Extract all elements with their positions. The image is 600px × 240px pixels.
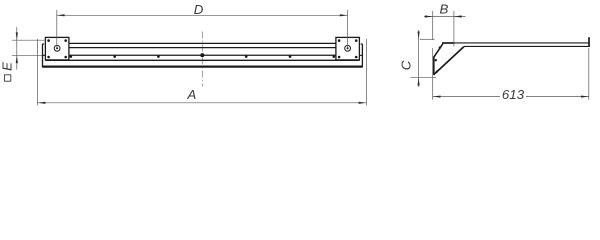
dimension C: extension and dimension lines (411, 30, 437, 87)
svg-text:C: C (398, 60, 413, 70)
arm tube bottom edge (464, 45, 590, 47)
dimension 613: extension and dimension lines (433, 48, 589, 100)
dimension C: top arrowhead (418, 32, 420, 40)
bracket hole upper (439, 46, 441, 48)
wall bracket plate: left vertical edge (433, 56, 435, 74)
luminaire housing flange line (45, 59, 359, 61)
svg-text:613: 613 (502, 87, 525, 102)
left tube end cap (43, 41, 47, 56)
center rivet dot on centerline (200, 53, 204, 57)
dimension D: right arrowhead (340, 14, 348, 16)
dimension C: bottom arrowhead (418, 78, 420, 86)
bracket hole middle (435, 59, 437, 61)
dimension D: extension and dimension lines (57, 10, 348, 48)
dimension D: left arrowhead (57, 14, 65, 16)
dimension E: square-section symbol (4, 75, 10, 81)
svg-text:D: D (194, 2, 204, 17)
svg-text:A: A (186, 87, 196, 102)
dimension E: extension and dimension lines (12, 27, 46, 70)
dimension E: top arrowhead (16, 32, 18, 40)
wall bracket plate: upper-left chamfer edge (434, 44, 443, 57)
dimension E: bottom arrowhead (16, 55, 18, 63)
dimension 613: right arrowhead (581, 96, 589, 98)
dimension 613: left arrowhead (433, 96, 441, 98)
svg-text:B: B (439, 1, 448, 16)
right mounting plate with screw holes and center hole (336, 37, 360, 60)
crossbar tube top edge (69, 42, 336, 44)
luminaire housing bottom edge (thick) (42, 65, 362, 67)
left mounting plate with screw holes and center hole (45, 37, 69, 60)
dimension B: extension and dimension lines (424, 11, 466, 47)
wall bracket plate: bottom diagonal edge (434, 47, 464, 75)
arm tube top edge (455, 42, 589, 44)
rivet dot 4 (245, 55, 248, 58)
luminaire housing top edge (69, 54, 336, 56)
crossbar tube bottom edge (69, 47, 336, 49)
right tube end cap (358, 41, 362, 56)
rivet dot 6 (333, 55, 336, 58)
dimension A: left arrowhead (38, 102, 46, 104)
dimension A: extension and dimension lines (38, 39, 367, 105)
vertical centerline (dash-dot) (201, 32, 203, 87)
bracket hole lower (436, 70, 438, 72)
dimension B: left arrowhead (425, 15, 433, 17)
rivet dot 3 (157, 55, 160, 58)
wall bracket plate: top edge (442, 42, 455, 44)
dimension A: right arrowhead (359, 102, 367, 104)
svg-text:E: E (0, 62, 14, 71)
luminaire housing right end edge (361, 44, 363, 67)
rivet dot 1 (70, 55, 73, 58)
rivet dot 2 (113, 55, 116, 58)
luminaire housing left end edge (42, 44, 44, 67)
rivet dot 5 (289, 55, 292, 58)
arm end stop bar (588, 37, 590, 47)
dimension B: right arrowhead (454, 15, 462, 17)
